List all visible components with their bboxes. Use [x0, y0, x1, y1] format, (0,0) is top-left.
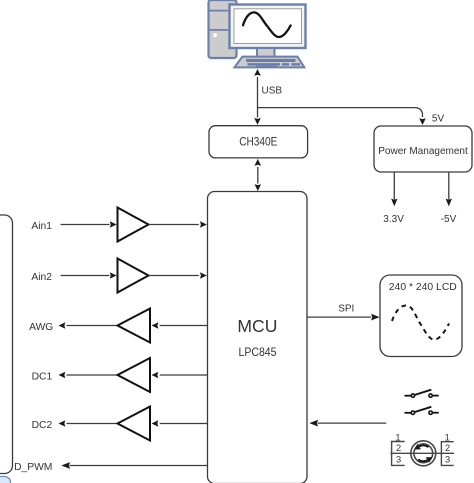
svg-text:2: 2 — [396, 443, 401, 453]
svg-text:CH340E: CH340E — [239, 135, 277, 149]
3.3V output arrow — [391, 173, 397, 207]
svg-text:1: 1 — [395, 432, 400, 442]
blue box (cut off, bottom-left) — [0, 477, 11, 483]
svg-text:LPC845: LPC845 — [239, 345, 277, 359]
svg-text:MCU: MCU — [237, 316, 277, 336]
wire MCU to amp A3 — [152, 322, 208, 329]
switch S1 — [405, 390, 439, 398]
svg-text:Ain1: Ain1 — [31, 221, 52, 232]
svg-text:2: 2 — [445, 443, 450, 453]
svg-text:3.3V: 3.3V — [383, 214, 404, 225]
switch S2 — [405, 407, 439, 415]
dashed waveform on LCD — [392, 305, 449, 339]
svg-text:3: 3 — [396, 454, 401, 464]
op-amp A4 (DC1 buffer) — [118, 358, 151, 392]
block 240*240 LCD — [380, 275, 462, 357]
rotary encoder left pin block — [392, 432, 405, 465]
svg-text:240 * 240 LCD: 240 * 240 LCD — [389, 281, 457, 293]
wire MCU to amp A4 — [152, 372, 208, 379]
svg-text:D_PWM: D_PWM — [14, 462, 52, 473]
keyboard — [234, 57, 304, 68]
svg-text:USB: USB — [262, 85, 283, 96]
-5V output arrow — [446, 173, 452, 207]
svg-text:SPI: SPI — [338, 304, 354, 315]
block CH340E — [209, 126, 308, 158]
wire amp A1 to MCU — [149, 221, 207, 228]
op-amp A5 (DC2 buffer) — [118, 407, 151, 441]
svg-text:Power Management: Power Management — [378, 145, 468, 157]
wire amp A3 to AWG — [59, 322, 118, 329]
block MCU LPC845 — [208, 192, 308, 483]
wire amp A4 to DC1 — [59, 372, 118, 379]
svg-text:-5V: -5V — [441, 214, 457, 225]
analog front-end box (cut off at left) — [0, 215, 13, 474]
PC monitor — [230, 5, 306, 49]
rotary encoder rotation arrows — [415, 444, 433, 463]
wire MCU to amp A5 — [152, 420, 208, 427]
wire MCU to D_PWM — [61, 462, 207, 469]
PC tower — [209, 0, 237, 58]
5V branch wire — [258, 108, 426, 125]
svg-text:5V: 5V — [432, 113, 445, 124]
wire MCU to LCD (SPI) — [307, 314, 379, 321]
block Power Management — [374, 126, 472, 172]
wire Ain1 to amp A1 — [61, 221, 117, 228]
svg-text:3: 3 — [445, 454, 450, 464]
rotary encoder right pin block — [441, 432, 453, 465]
rotary encoder common wire — [390, 452, 454, 454]
sine wave on monitor screen — [243, 12, 291, 37]
op-amp A3 (AWG buffer) — [118, 309, 151, 343]
svg-text:AWG: AWG — [29, 322, 53, 333]
wire amp A2 to MCU — [149, 272, 207, 279]
svg-text:DC1: DC1 — [32, 371, 53, 382]
rotary encoder body — [411, 441, 436, 466]
svg-text:DC2: DC2 — [32, 420, 53, 431]
svg-text:Ain2: Ain2 — [31, 272, 52, 283]
USB link double arrow — [254, 69, 261, 125]
wire amp A5 to DC2 — [59, 420, 118, 427]
wire buttons to MCU — [309, 420, 386, 427]
monitor stand — [257, 48, 275, 57]
op-amp A2 (Ain2 buffer) — [118, 259, 149, 293]
op-amp A1 (Ain1 buffer) — [118, 208, 149, 242]
CH340E to MCU double arrow — [255, 159, 262, 191]
wire Ain2 to amp A2 — [61, 272, 117, 279]
svg-text:1: 1 — [445, 432, 450, 442]
